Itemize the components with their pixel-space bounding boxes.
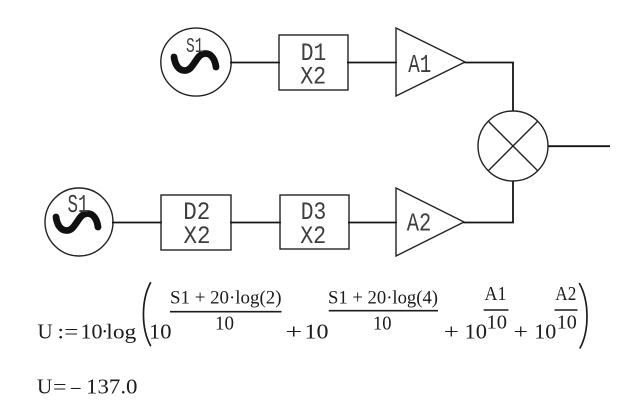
svg-text:10: 10 bbox=[215, 313, 234, 335]
svg-text::=: := bbox=[57, 320, 78, 344]
svg-text:+: + bbox=[444, 320, 459, 344]
svg-text:S1: S1 bbox=[68, 190, 89, 220]
svg-text:+: + bbox=[514, 320, 529, 344]
svg-text:10: 10 bbox=[149, 320, 172, 344]
svg-text:A2: A2 bbox=[555, 284, 576, 305]
svg-text:X2: X2 bbox=[300, 222, 326, 251]
svg-text:10: 10 bbox=[81, 320, 103, 344]
svg-text:S1: S1 bbox=[186, 35, 204, 59]
svg-text:A1: A1 bbox=[485, 284, 507, 305]
svg-text:S1 + 20·log(4): S1 + 20·log(4) bbox=[328, 288, 438, 309]
svg-text:137.0: 137.0 bbox=[86, 375, 138, 399]
svg-text:10: 10 bbox=[487, 313, 508, 334]
svg-text:10: 10 bbox=[373, 313, 392, 335]
svg-text:A2: A2 bbox=[407, 208, 432, 238]
svg-text:log: log bbox=[106, 320, 137, 344]
svg-text:10: 10 bbox=[534, 320, 556, 344]
svg-text:A1: A1 bbox=[408, 50, 431, 80]
svg-text:U: U bbox=[38, 320, 53, 344]
svg-text:S1 + 20·log(2): S1 + 20·log(2) bbox=[170, 288, 282, 309]
svg-text:X2: X2 bbox=[184, 222, 211, 251]
svg-text:10: 10 bbox=[465, 320, 488, 344]
svg-text:+: + bbox=[285, 320, 302, 344]
svg-text:10: 10 bbox=[557, 313, 577, 334]
svg-text:U: U bbox=[37, 375, 52, 399]
svg-text:X2: X2 bbox=[300, 62, 326, 91]
svg-text:=: = bbox=[53, 375, 67, 399]
svg-text:–: – bbox=[70, 375, 81, 399]
svg-text:10: 10 bbox=[305, 320, 329, 344]
